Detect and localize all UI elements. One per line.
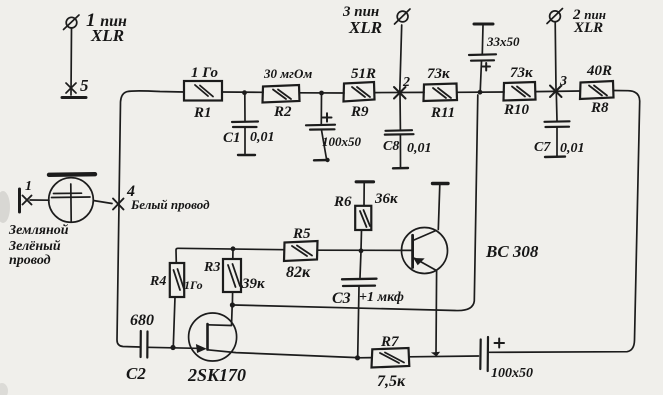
feedback wire from drain node right and up — [234, 95, 478, 311]
svg-text:51R: 51R — [351, 66, 376, 82]
svg-text:R4: R4 — [149, 274, 166, 289]
resistor R3 — [223, 259, 241, 292]
wire R3 bottom to drain node — [231, 292, 233, 305]
resistor R4 — [170, 263, 184, 297]
XLR pin2 connector circle — [547, 9, 563, 24]
svg-text:680: 680 — [130, 312, 154, 329]
resistor R8 — [580, 81, 614, 99]
svg-text:C3: C3 — [332, 290, 351, 307]
wire R10 to node 3 — [536, 90, 581, 93]
svg-text:R2: R2 — [273, 104, 292, 120]
svg-text:Зелёный: Зелёный — [8, 239, 61, 254]
svg-text:R7: R7 — [380, 334, 399, 350]
resistor R10 — [504, 82, 536, 101]
bottom rail JFET source to R7 — [208, 350, 358, 358]
svg-text:73к: 73к — [427, 66, 450, 82]
mic capsule left terminal bar — [18, 189, 21, 212]
svg-text:1: 1 — [25, 179, 32, 194]
resistor R11 — [424, 84, 458, 102]
wire terminal to capsule — [30, 199, 49, 201]
svg-text:C1: C1 — [223, 130, 241, 146]
node 2 X marker — [394, 87, 406, 99]
wire node3 up to XLR pin2 — [554, 22, 557, 89]
svg-text:73к: 73к — [510, 65, 533, 81]
svg-text:30 мгОм: 30 мгОм — [263, 66, 312, 81]
transistor Q2 2SK170 — [189, 306, 237, 362]
wire node2 up to XLR pin3 — [400, 25, 402, 91]
svg-text:0,01: 0,01 — [560, 141, 585, 156]
capacitor C8 — [385, 93, 414, 168]
svg-text:R10: R10 — [503, 102, 530, 118]
capacitor 33x50 (polarized) with top tick — [469, 24, 496, 92]
mic capsule body — [49, 174, 95, 222]
svg-text:R9: R9 — [350, 104, 369, 120]
svg-text:XLR: XLR — [573, 20, 603, 36]
junction drain node — [230, 302, 235, 307]
node junction after R1 — [242, 90, 247, 95]
capacitor C3 — [342, 251, 377, 357]
pin 4 X marker — [113, 199, 124, 210]
svg-text:2: 2 — [402, 75, 410, 90]
wire R1 to node — [222, 91, 263, 93]
node 3 X marker — [550, 86, 562, 98]
svg-text:36к: 36к — [374, 191, 398, 207]
capacitor C2 — [141, 331, 148, 358]
wire R3 top — [232, 249, 234, 259]
svg-text:40R: 40R — [586, 63, 612, 79]
svg-text:C8: C8 — [383, 139, 399, 154]
capacitor 100x50 (first, polarized) — [306, 93, 335, 162]
svg-text:100x50: 100x50 — [322, 134, 362, 149]
svg-text:82к: 82к — [286, 264, 311, 281]
svg-text:провод: провод — [9, 253, 51, 268]
svg-text:5: 5 — [80, 76, 89, 95]
node junction 33x50 tap — [478, 90, 483, 95]
XLR pin1 connector circle — [64, 15, 80, 30]
resistor R9 — [344, 82, 375, 102]
node junction after R2 — [319, 91, 324, 96]
wire R8 right, down right edge — [490, 91, 640, 353]
junction R6/C3 node — [359, 248, 364, 253]
middle rail from R4 to base — [176, 248, 284, 263]
wire middle rail R5 to R6 node to base — [317, 249, 412, 251]
svg-text:1Го: 1Го — [184, 278, 203, 292]
svg-text:0,01: 0,01 — [407, 141, 432, 156]
XLR pin3 connector circle — [395, 9, 411, 24]
svg-text:7,5к: 7,5к — [377, 373, 406, 390]
svg-text:R8: R8 — [590, 100, 609, 116]
junction R4 bottom — [170, 345, 175, 350]
svg-text:Белый провод: Белый провод — [130, 197, 210, 212]
resistor R5 — [284, 241, 318, 261]
wire R7 to cap — [409, 355, 478, 358]
svg-text:XLR: XLR — [348, 18, 382, 37]
svg-text:100x50: 100x50 — [491, 366, 533, 381]
transistor U1 BC308 — [402, 184, 449, 355]
junction BC308 emitter to rail — [432, 352, 439, 356]
wire capsule to pin4 — [93, 201, 112, 204]
wire R11 to R10 — [457, 91, 504, 93]
pin 5 end tick — [62, 96, 86, 99]
svg-text:R11: R11 — [430, 105, 455, 121]
svg-text:C7: C7 — [534, 140, 551, 155]
node junction R3 top — [231, 246, 236, 251]
bottom rail C2 to JFET gate — [148, 347, 197, 348]
svg-text:Земляной: Земляной — [8, 223, 69, 238]
svg-text:C2: C2 — [126, 364, 146, 383]
pin 1 X marker — [23, 196, 32, 205]
svg-text:+1 мкф: +1 мкф — [359, 290, 404, 305]
svg-text:R6: R6 — [333, 194, 352, 210]
svg-text:3: 3 — [559, 74, 567, 89]
resistor R2 — [263, 85, 300, 103]
pin 5 X marker — [66, 83, 76, 93]
resistor R7 — [372, 348, 410, 368]
capacitor C7 — [545, 92, 570, 157]
resistor R6 with top tick — [355, 182, 373, 251]
wire R9 to node 2 — [375, 91, 425, 93]
junction C3 bottom — [355, 355, 360, 360]
wire R2 to node — [300, 92, 345, 94]
svg-text:R5: R5 — [292, 226, 311, 242]
wire pin1 vertical — [70, 28, 73, 95]
wire to R7 — [358, 357, 373, 359]
svg-text:XLR: XLR — [90, 26, 124, 45]
svg-text:R1: R1 — [193, 105, 212, 121]
svg-text:2SK170: 2SK170 — [187, 365, 246, 385]
capacitor C1 — [232, 93, 258, 155]
svg-text:BC 308: BC 308 — [485, 242, 539, 261]
svg-text:1 Го: 1 Го — [191, 65, 218, 81]
wire R4 to bottom rail — [173, 297, 175, 347]
svg-text:39к: 39к — [241, 276, 265, 292]
svg-text:33x50: 33x50 — [486, 34, 520, 49]
capacitor 100x50 (second) — [480, 337, 504, 371]
svg-text:R3: R3 — [203, 260, 220, 275]
resistor R1 — [184, 81, 222, 101]
wire top rail left + left vertical drop — [117, 91, 184, 347]
svg-text:0,01: 0,01 — [250, 130, 275, 145]
